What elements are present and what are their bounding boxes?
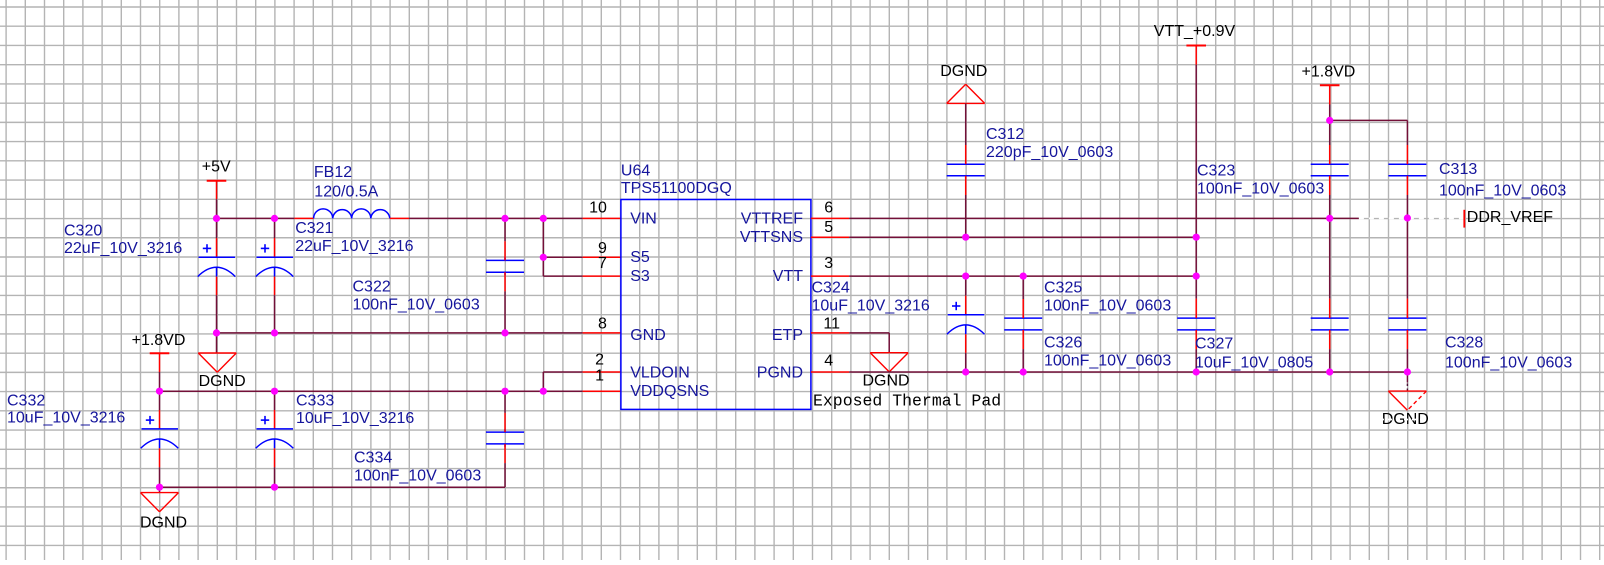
svg-text:GND: GND bbox=[630, 327, 666, 344]
svg-text:C327: C327 bbox=[1195, 335, 1233, 352]
svg-text:100nF_10V_0603: 100nF_10V_0603 bbox=[1044, 298, 1171, 315]
svg-text:100nF_10V_0603: 100nF_10V_0603 bbox=[1445, 355, 1572, 372]
svg-text:DGND: DGND bbox=[940, 63, 987, 80]
svg-text:C332: C332 bbox=[7, 393, 45, 410]
svg-text:C322: C322 bbox=[353, 279, 391, 296]
svg-text:C333: C333 bbox=[296, 393, 334, 410]
svg-text:VTT_+0.9V: VTT_+0.9V bbox=[1154, 23, 1236, 40]
svg-text:6: 6 bbox=[824, 200, 833, 217]
svg-text:C325: C325 bbox=[1044, 280, 1082, 297]
svg-text:+1.8VD: +1.8VD bbox=[132, 332, 186, 349]
svg-text:8: 8 bbox=[598, 316, 607, 333]
svg-text:+5V: +5V bbox=[202, 158, 231, 175]
svg-text:C320: C320 bbox=[64, 223, 102, 240]
svg-text:C328: C328 bbox=[1445, 335, 1483, 352]
svg-text:3: 3 bbox=[824, 255, 833, 272]
svg-text:S3: S3 bbox=[630, 268, 650, 285]
svg-text:120/0.5A: 120/0.5A bbox=[314, 183, 378, 200]
svg-text:DDR_VREF: DDR_VREF bbox=[1467, 209, 1553, 226]
svg-text:10uF_10V_0805: 10uF_10V_0805 bbox=[1195, 355, 1313, 372]
svg-text:DGND: DGND bbox=[863, 373, 910, 390]
svg-text:100nF_10V_0603: 100nF_10V_0603 bbox=[353, 297, 480, 314]
svg-text:DGND: DGND bbox=[140, 514, 187, 531]
svg-text:VTTREF: VTTREF bbox=[741, 211, 803, 228]
svg-text:100nF_10V_0603: 100nF_10V_0603 bbox=[1439, 183, 1566, 200]
svg-text:C334: C334 bbox=[354, 450, 392, 467]
svg-text:S5: S5 bbox=[630, 249, 650, 266]
svg-text:22uF_10V_3216: 22uF_10V_3216 bbox=[295, 238, 413, 255]
svg-text:100nF_10V_0603: 100nF_10V_0603 bbox=[1044, 353, 1171, 370]
svg-text:VTT: VTT bbox=[773, 268, 803, 285]
svg-text:2: 2 bbox=[595, 351, 604, 368]
svg-text:100nF_10V_0603: 100nF_10V_0603 bbox=[1197, 181, 1324, 198]
svg-text:VLDOIN: VLDOIN bbox=[630, 365, 690, 382]
svg-text:TPS51100DGQ: TPS51100DGQ bbox=[621, 180, 732, 197]
svg-text:C321: C321 bbox=[295, 220, 333, 237]
svg-text:100nF_10V_0603: 100nF_10V_0603 bbox=[354, 468, 481, 485]
svg-text:DGND: DGND bbox=[199, 373, 246, 390]
svg-text:PGND: PGND bbox=[757, 365, 803, 382]
svg-text:Exposed Thermal Pad: Exposed Thermal Pad bbox=[813, 392, 1001, 411]
svg-text:FB12: FB12 bbox=[314, 164, 352, 181]
svg-text:1: 1 bbox=[595, 368, 604, 385]
svg-text:VDDQSNS: VDDQSNS bbox=[630, 383, 709, 400]
svg-text:C326: C326 bbox=[1044, 335, 1082, 352]
svg-text:22uF_10V_3216: 22uF_10V_3216 bbox=[64, 240, 182, 257]
svg-text:U64: U64 bbox=[621, 162, 650, 179]
svg-text:10uF_10V_3216: 10uF_10V_3216 bbox=[7, 410, 125, 427]
svg-text:C313: C313 bbox=[1439, 161, 1477, 178]
svg-text:+1.8VD: +1.8VD bbox=[1302, 64, 1356, 81]
svg-text:VIN: VIN bbox=[630, 211, 657, 228]
svg-text:10: 10 bbox=[589, 200, 607, 217]
svg-text:VTTSNS: VTTSNS bbox=[740, 229, 803, 246]
svg-text:C323: C323 bbox=[1197, 163, 1235, 180]
svg-text:10uF_10V_3216: 10uF_10V_3216 bbox=[296, 410, 414, 427]
svg-text:5: 5 bbox=[824, 219, 833, 236]
svg-text:4: 4 bbox=[824, 353, 833, 370]
svg-text:11: 11 bbox=[823, 316, 840, 333]
svg-text:220pF_10V_0603: 220pF_10V_0603 bbox=[986, 144, 1113, 161]
svg-text:C324: C324 bbox=[812, 280, 850, 297]
svg-text:ETP: ETP bbox=[772, 327, 803, 344]
svg-text:10uF_10V_3216: 10uF_10V_3216 bbox=[812, 298, 930, 315]
svg-text:7: 7 bbox=[598, 255, 607, 272]
svg-text:C312: C312 bbox=[986, 126, 1024, 143]
